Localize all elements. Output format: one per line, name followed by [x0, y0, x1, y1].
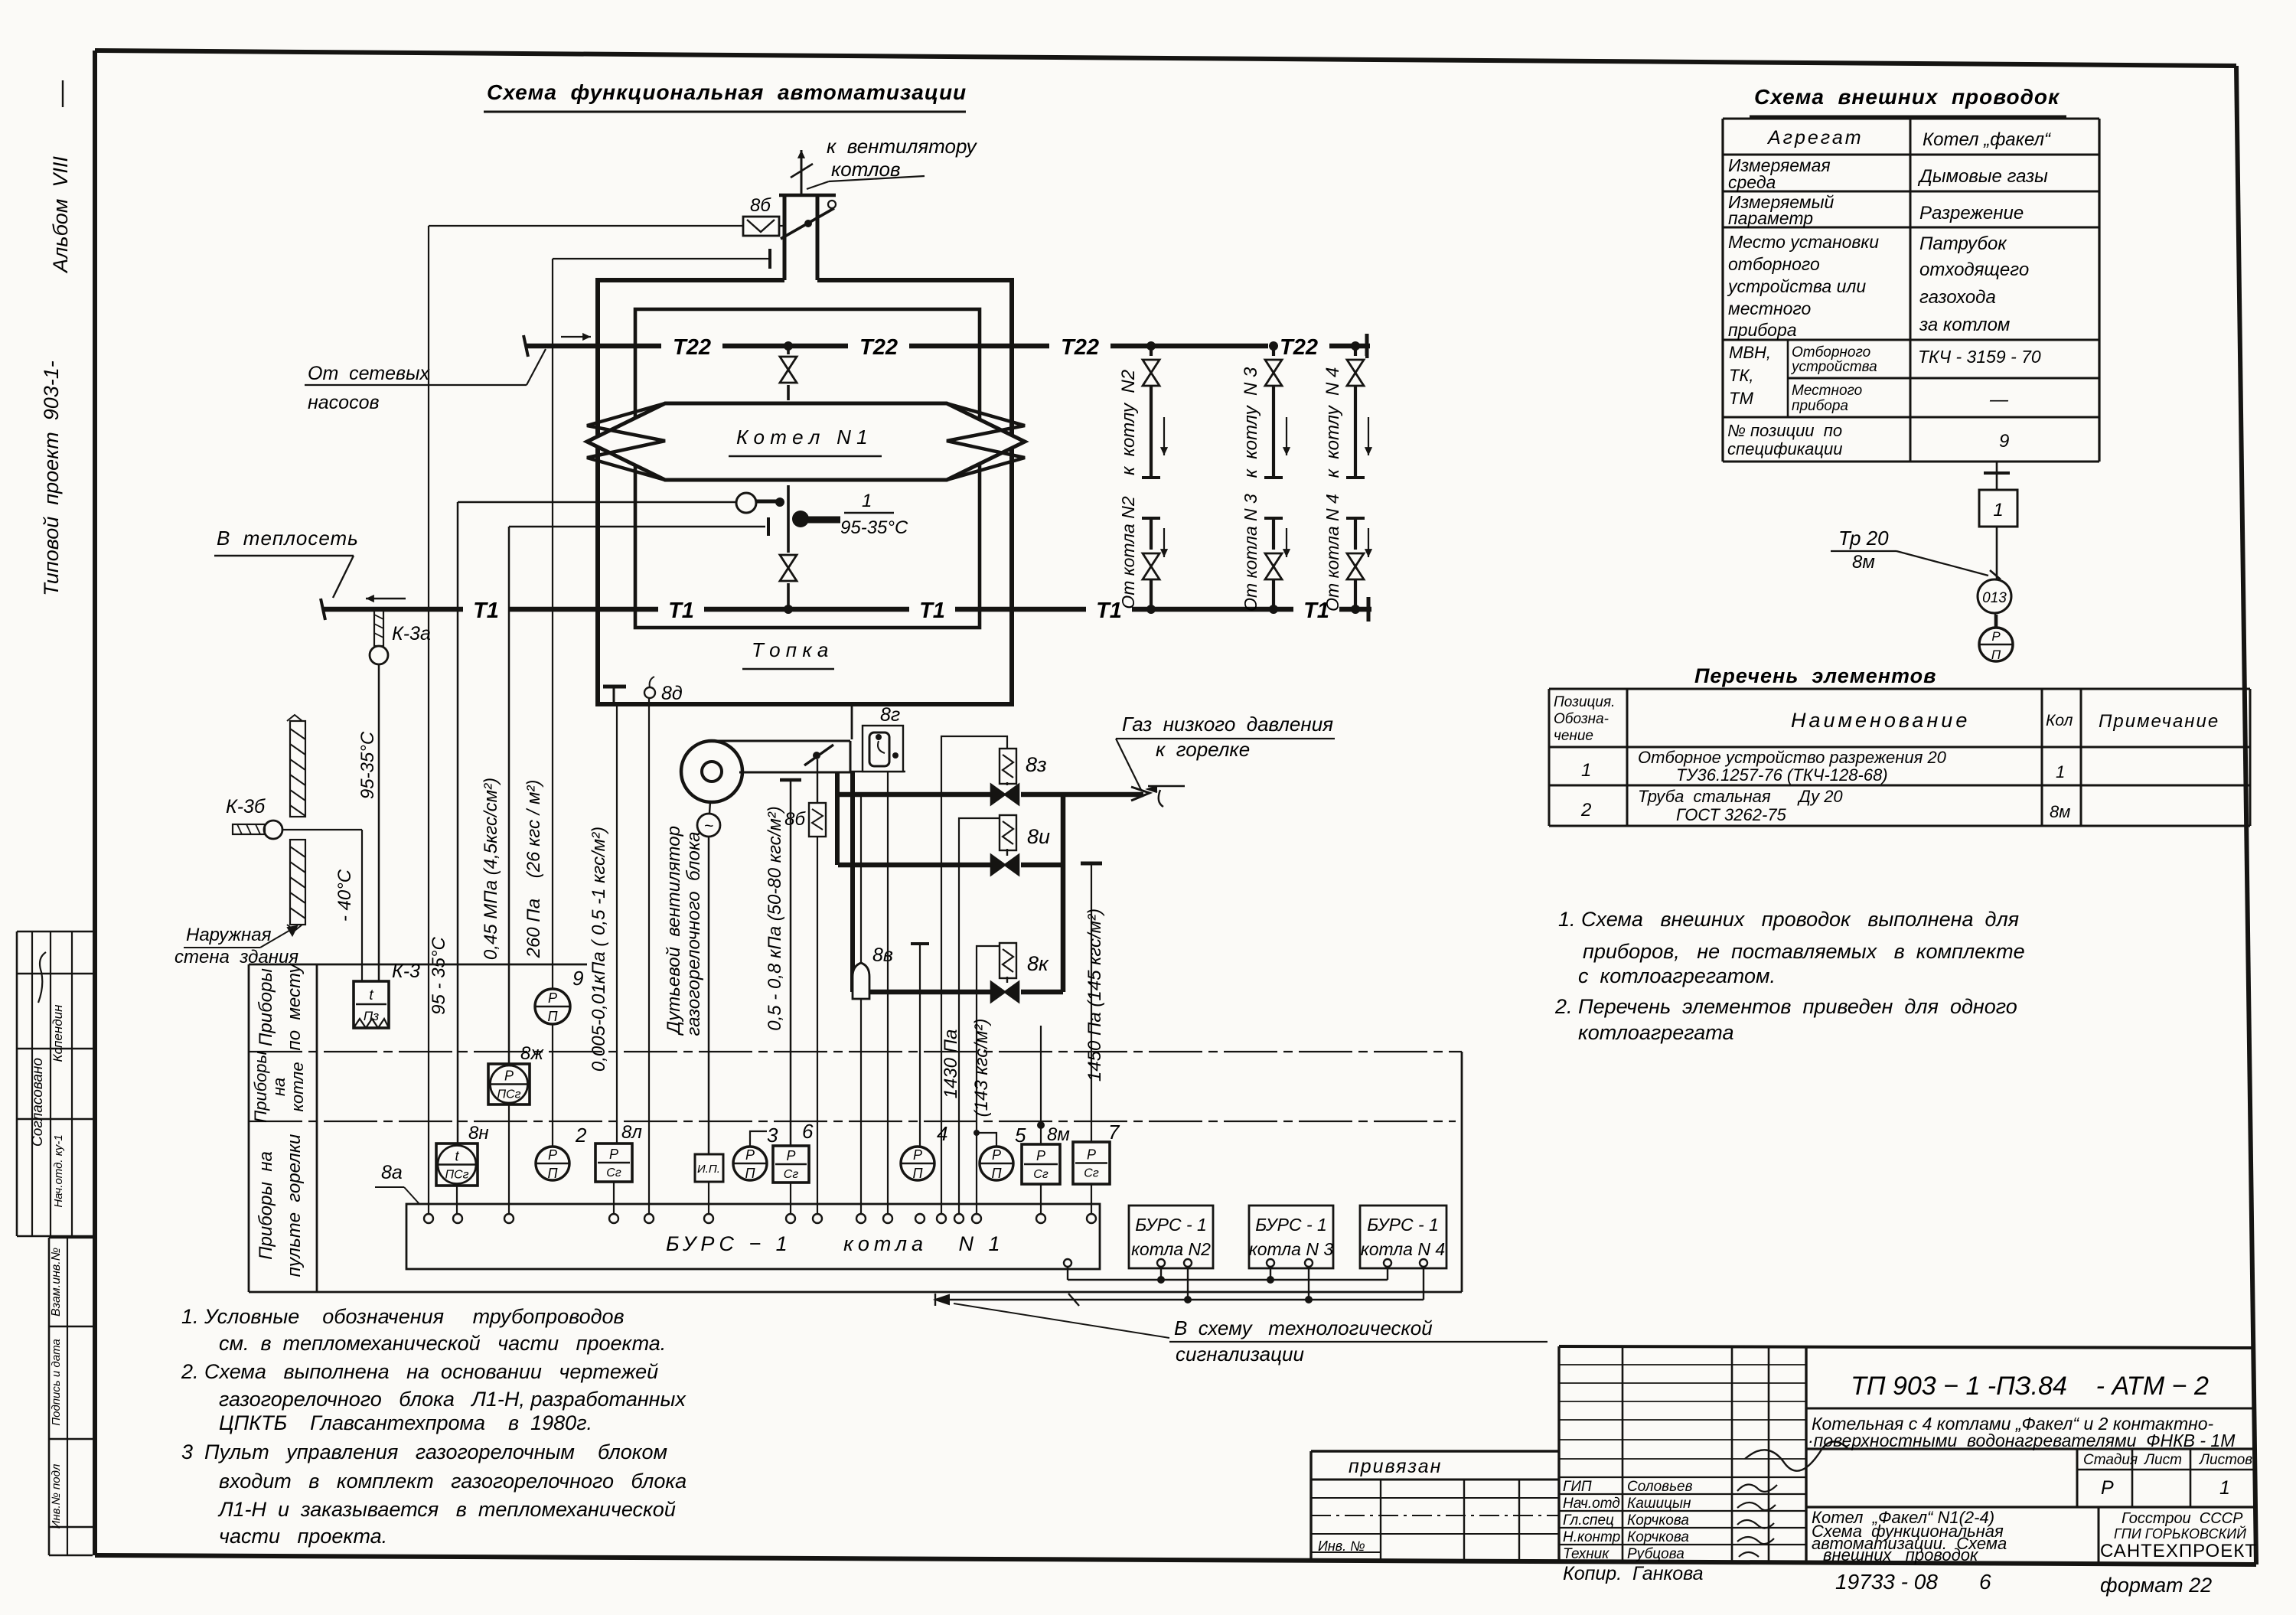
svg-text:котла N2: котла N2: [1131, 1239, 1211, 1259]
svg-text:Р: Р: [548, 1147, 557, 1163]
border frame: [93, 51, 97, 1555]
svg-text:насосов: насосов: [308, 392, 380, 413]
svg-text:ТМ: ТМ: [1729, 389, 1754, 408]
chimney damper: [781, 208, 834, 239]
svg-text:к котлу N 4: к котлу N 4: [1322, 367, 1343, 478]
svg-text:Лист: Лист: [2143, 1452, 2182, 1468]
boiler right zigzag: [947, 403, 1025, 480]
svg-text:части проекта.: части проекта.: [219, 1525, 387, 1548]
svg-text:приборов, не поставляемых: приборов, не поставляемых в комплекте: [1583, 940, 2025, 963]
K-3b thermometer: [233, 824, 265, 834]
svg-text:9: 9: [1999, 431, 2009, 452]
svg-text:Соловьев: Соловьев: [1627, 1479, 1693, 1495]
svg-text:Листов: Листов: [2198, 1452, 2252, 1468]
8v sensor (bullet): [860, 794, 862, 966]
svg-text:БУРС - 1: БУРС - 1: [1367, 1215, 1439, 1235]
svg-text:П: П: [912, 1166, 923, 1181]
svg-text:газохода: газохода: [1919, 287, 1996, 308]
svg-text:Инв. №: Инв. №: [1318, 1538, 1365, 1554]
svg-text:2. Схема выполнена на осн: 2. Схема выполнена на основании чертежей: [181, 1360, 658, 1383]
svg-text:Газ низкого давления: Газ низкого давления: [1122, 713, 1333, 736]
svg-text:8б: 8б: [750, 195, 771, 216]
svg-text:с котлоагрегатом.: с котлоагрегатом.: [1578, 964, 1776, 987]
T end tap line to instrument 4: [911, 942, 929, 945]
svg-text:Перечень элементов: Перечень элементов: [1694, 664, 1936, 687]
wires from gas valve actuators: [941, 736, 1007, 1214]
svg-text:входит в комплект газого: входит в комплект газогорелочного блока: [219, 1470, 687, 1493]
svg-text:Отборное устройство разрежения: Отборное устройство разрежения 20: [1638, 748, 1947, 767]
svg-text:Агрегат: Агрегат: [1766, 127, 1864, 148]
svg-text:П: П: [991, 1166, 1002, 1181]
svg-text:8л: 8л: [621, 1122, 642, 1143]
svg-text:1: 1: [1993, 500, 2003, 520]
svg-text:Р: Р: [548, 990, 557, 1006]
gas arrow end: [1131, 787, 1150, 801]
svg-text:МВН,: МВН,: [1729, 343, 1771, 362]
svg-text:П: П: [547, 1166, 558, 1181]
instrument 9 (P/P local): [552, 972, 553, 989]
svg-text:П: П: [1991, 648, 2001, 662]
svg-text:отборного: отборного: [1728, 254, 1820, 274]
svg-text:Т о п к а: Т о п к а: [752, 638, 828, 661]
left margin upper table (approvals): [17, 931, 93, 933]
svg-text:Инв.№ подл: Инв.№ подл: [50, 1463, 63, 1529]
svg-text:Копир. Ганкова: Копир. Ганкова: [1563, 1563, 1704, 1584]
svg-text:От котла N2: От котла N2: [1118, 496, 1138, 609]
svg-text:—: —: [1989, 390, 2009, 410]
left margin lower strip (inv/sign cells): [49, 1237, 93, 1239]
svg-text:Типовой проект 903-1-: Типовой проект 903-1-: [40, 361, 63, 596]
valve 8b (draft regulator): [429, 225, 743, 227]
svg-text:1: 1: [1581, 760, 1591, 781]
svg-text:1430 Па: 1430 Па: [941, 1029, 961, 1099]
svg-text:ГИП: ГИП: [1563, 1479, 1592, 1495]
svg-text:От котла N 4: От котла N 4: [1322, 494, 1342, 612]
flow arrow on T22: [561, 336, 591, 338]
svg-text:котла N 3: котла N 3: [1249, 1239, 1333, 1259]
thermowell sensor 1 / 95-35C: [792, 511, 809, 527]
svg-text:2: 2: [575, 1124, 587, 1147]
svg-text:8б: 8б: [784, 809, 806, 830]
svg-text:Местного: Местного: [1792, 383, 1862, 399]
svg-text:К-3б: К-3б: [226, 796, 266, 817]
svg-text:8г: 8г: [880, 704, 900, 726]
svg-text:Сг: Сг: [1084, 1167, 1099, 1180]
svg-text:От сетевых: От сетевых: [308, 363, 430, 384]
svg-text:Нач.отд. ку-1: Нач.отд. ку-1: [52, 1134, 65, 1207]
svg-text:8м: 8м: [1047, 1124, 1070, 1145]
element list table: [1549, 688, 2250, 690]
svg-text:Р: Р: [786, 1148, 795, 1163]
svg-text:8и: 8и: [1027, 825, 1050, 848]
svg-text:Р: Р: [913, 1147, 922, 1163]
svg-text:местного: местного: [1728, 299, 1811, 318]
svg-text:Кашицын: Кашицын: [1627, 1496, 1691, 1512]
svg-text:Кспендин: Кспендин: [51, 1004, 65, 1062]
svg-text:Труба стальная Ду 20: Труба стальная Ду 20: [1638, 787, 1843, 806]
project name cell: [2098, 1507, 2100, 1562]
svg-text:Н.контр: Н.контр: [1563, 1529, 1620, 1545]
svg-text:Т1: Т1: [919, 599, 945, 623]
svg-text:0,45 МПа (4,5кгс/см²): 0,45 МПа (4,5кгс/см²): [481, 778, 501, 960]
svg-text:·поверхностными водонагревате: ·поверхностными водонагревателями ФНКВ -…: [1808, 1431, 2236, 1450]
svg-text:В схему технологической: В схему технологической: [1174, 1316, 1433, 1339]
title block right part: [1806, 1408, 2254, 1410]
svg-text:8в: 8в: [872, 945, 893, 966]
svg-text:Наружная: Наружная: [186, 925, 272, 945]
svg-text:см. в тепломеханической ча: см. в тепломеханической части проекта.: [219, 1332, 666, 1355]
svg-text:Корчкова: Корчкова: [1627, 1512, 1689, 1529]
svg-text:К-3: К-3: [392, 961, 420, 982]
svg-text:260 Па (26 кгс / м²): 260 Па (26 кгс / м²): [523, 780, 544, 959]
svg-text:газогорелочного блока: газогорелочного блока: [683, 832, 704, 1036]
svg-text:прибора: прибора: [1792, 398, 1848, 414]
svg-text:Сг: Сг: [606, 1166, 621, 1179]
svg-text:К-3а: К-3а: [392, 623, 431, 644]
svg-text:ГПИ ГОРЬКОВСКИЙ: ГПИ ГОРЬКОВСКИЙ: [2114, 1525, 2246, 1542]
svg-text:(143 кгс/м²): (143 кгс/м²): [971, 1019, 992, 1117]
svg-text:Т1: Т1: [668, 599, 694, 623]
svg-text:Подпись и дата: Подпись и дата: [50, 1339, 63, 1425]
svg-text:к вентилятору: к вентилятору: [827, 135, 978, 158]
svg-text:Госстрои СССР: Госстрои СССР: [2122, 1510, 2243, 1527]
svg-text:Место установки: Место установки: [1728, 232, 1879, 252]
svg-text:Отборного: Отборного: [1792, 344, 1870, 361]
BURS boiler N4 box: [1360, 1206, 1446, 1268]
svg-text:Приборы: Приборы: [251, 1051, 270, 1122]
gas main pipe: [836, 792, 1143, 798]
gas risers: [1061, 794, 1066, 992]
svg-text:~: ~: [704, 817, 713, 835]
instrument circle 013: [1978, 579, 2013, 615]
svg-text:9: 9: [572, 967, 583, 990]
svg-text:среда: среда: [1728, 172, 1776, 192]
svg-text:Т22: Т22: [673, 335, 711, 360]
svg-text:1: 1: [862, 491, 872, 511]
svg-text:19733 - 08: 19733 - 08: [1835, 1570, 1938, 1594]
svg-text:8м: 8м: [1852, 552, 1875, 573]
svg-text:В теплосеть: В теплосеть: [217, 527, 359, 550]
gas line to 8i: [838, 863, 1063, 868]
svg-text:на: на: [269, 1078, 289, 1096]
K-3a thermometer: [374, 611, 383, 646]
svg-text:котла N 4: котла N 4: [1361, 1239, 1445, 1259]
svg-text:2. Перечень элементов привед: 2. Перечень элементов приведен для одног…: [1554, 995, 2017, 1018]
svg-text:Патрубок: Патрубок: [1919, 233, 2007, 254]
svg-text:3: 3: [767, 1124, 778, 1147]
svg-text:по месту: по месту: [284, 963, 305, 1051]
svg-text:8к: 8к: [1027, 952, 1049, 975]
stage/sheet mini table: [2076, 1449, 2079, 1507]
svg-text:газогорелочного блока Л1-Н: газогорелочного блока Л1-Н, разработанны…: [219, 1388, 687, 1411]
T end on 1450Pa line: [1081, 862, 1102, 866]
svg-text:Разрежение: Разрежение: [1919, 203, 2024, 223]
svg-text:прибора: прибора: [1728, 320, 1797, 340]
svg-text:к котлу N 3: к котлу N 3: [1241, 367, 1261, 478]
svg-text:чение: чение: [1554, 728, 1593, 744]
flow arrow on T1: [366, 598, 406, 599]
svg-text:7: 7: [1108, 1121, 1120, 1144]
svg-text:Сг: Сг: [784, 1168, 799, 1181]
svg-text:И.П.: И.П.: [697, 1163, 720, 1176]
thermometer on drum: [458, 501, 736, 504]
8d sensor flag: [644, 687, 655, 698]
svg-text:к котлу N2: к котлу N2: [1118, 370, 1139, 475]
svg-text:ГОСТ 3262-75: ГОСТ 3262-75: [1676, 805, 1787, 824]
svg-text:САНТЕХПРОЕКТ: САНТЕХПРОЕКТ: [2100, 1541, 2257, 1561]
8b2 solenoid on vertical: [817, 759, 818, 803]
svg-text:Сг: Сг: [1033, 1168, 1049, 1181]
valve 8z: [990, 784, 1021, 805]
svg-text:Альбом VIII: Альбом VIII: [49, 156, 72, 274]
svg-text:П: П: [547, 1009, 558, 1024]
boiler room outer box (furnace enclosure): [598, 280, 1012, 704]
title block fine grid: [1557, 1346, 1560, 1562]
svg-text:8м: 8м: [2050, 802, 2070, 821]
BURS terminals: [424, 1214, 433, 1223]
svg-text:Согласовано: Согласовано: [30, 1058, 46, 1147]
svg-text:3 Пульт управления газого: 3 Пульт управления газогорелочным блоком: [181, 1440, 667, 1463]
svg-text:1: 1: [2056, 762, 2065, 781]
svg-text:Наименование: Наименование: [1791, 709, 1970, 732]
long impulse wires down to BURS: [428, 226, 429, 1214]
svg-text:Т22: Т22: [1061, 335, 1099, 360]
svg-text:устройства: устройства: [1790, 359, 1877, 375]
valve from T22 to drum: [784, 341, 793, 351]
external wiring table: [1723, 118, 2099, 120]
svg-text:Т1: Т1: [473, 599, 499, 623]
svg-text:Р: Р: [992, 1147, 1001, 1163]
impulse line with T end (furnace): [509, 526, 765, 528]
instrument circle P/P: [1994, 613, 1997, 628]
svg-text:параметр: параметр: [1728, 208, 1813, 228]
K-3 local instrument: [354, 981, 389, 1028]
svg-text:Приборы на: Приборы на: [256, 1151, 276, 1260]
svg-text:Позиция.: Позиция.: [1554, 694, 1615, 710]
svg-text:Схема функциональная автомат: Схема функциональная автоматизации: [487, 80, 967, 104]
draft tap line with T end: [553, 258, 767, 259]
svg-text:сигнализации: сигнализации: [1176, 1343, 1304, 1365]
alarm scheme label: [954, 1303, 1169, 1338]
fan (blower): [681, 741, 742, 802]
svg-text:Взам.инв.№: Взам.инв.№: [50, 1248, 63, 1316]
svg-text:1: 1: [2219, 1477, 2230, 1499]
signal buses to alarm scheme: [1064, 1259, 1071, 1267]
svg-text:привязан: привязан: [1349, 1456, 1442, 1477]
svg-text:Р: Р: [504, 1069, 514, 1084]
vent arrow to fan of boilers: [801, 150, 803, 194]
svg-text:2: 2: [1580, 800, 1591, 821]
branch valves to boilers N2 N3 N4: [1146, 341, 1156, 351]
svg-text:формат 22: формат 22: [2100, 1574, 2212, 1597]
svg-text:8з: 8з: [1026, 753, 1047, 776]
svg-text:Т22: Т22: [1280, 335, 1318, 360]
svg-text:Р: Р: [745, 1147, 755, 1163]
BURS boiler N3 box: [1249, 1206, 1333, 1268]
svg-text:№ позиции по: № позиции по: [1727, 421, 1842, 440]
boiler left zigzag: [587, 403, 665, 480]
fan motor: [697, 814, 720, 837]
svg-text:От котла N 3: От котла N 3: [1241, 494, 1261, 612]
external wiring: sensor chain: [1996, 462, 1998, 628]
svg-text:БУРС − 1 котла N 1: БУРС − 1 котла N 1: [666, 1232, 1005, 1255]
svg-text:1. Условные обозначения: 1. Условные обозначения трубопроводов: [181, 1305, 625, 1328]
svg-text:внешних проводок: внешних проводок: [1823, 1545, 1979, 1564]
outer building wall: [290, 721, 305, 817]
svg-text:Р: Р: [1036, 1148, 1045, 1163]
svg-text:котле: котле: [288, 1062, 307, 1111]
pipe T1 return line: [324, 607, 1371, 612]
svg-text:0,005-0,01кПа ( 0,5 -1 кгс/м²): 0,005-0,01кПа ( 0,5 -1 кгс/м²): [589, 827, 609, 1072]
BURS boiler N2 box: [1129, 1206, 1213, 1268]
svg-text:Схема внешних проводок: Схема внешних проводок: [1754, 85, 2060, 109]
svg-text:Нач.отд: Нач.отд: [1563, 1496, 1620, 1512]
svg-text:за котлом: за котлом: [1919, 315, 2010, 335]
svg-text:Дутьевой вентилятор: Дутьевой вентилятор: [664, 826, 684, 1036]
svg-text:Приборы: Приборы: [256, 968, 276, 1046]
gas line to 8k: [853, 990, 1063, 995]
svg-text:95-35°С: 95-35°С: [357, 731, 378, 799]
svg-text:спецификации: спецификации: [1727, 439, 1842, 458]
svg-text:БУРС - 1: БУРС - 1: [1255, 1215, 1327, 1235]
chimney duct: [783, 195, 787, 280]
svg-text:Р: Р: [1991, 629, 2001, 644]
svg-text:котлоагрегата: котлоагрегата: [1578, 1021, 1734, 1044]
svg-text:Р: Р: [1087, 1147, 1096, 1163]
svg-text:1450 Па (145 кгс/м²): 1450 Па (145 кгс/м²): [1084, 909, 1105, 1082]
svg-text:6: 6: [1979, 1570, 1991, 1594]
svg-text:- 40°С: - 40°С: [334, 869, 355, 922]
signatures scribbles: [1737, 1484, 1777, 1491]
svg-text:устройства или: устройства или: [1727, 276, 1866, 296]
svg-text:8н: 8н: [468, 1123, 489, 1144]
position 1 box: [1979, 490, 2017, 527]
svg-text:ТУ36.1257-76 (ТКЧ-128-68): ТУ36.1257-76 (ТКЧ-128-68): [1676, 765, 1888, 785]
svg-text:Стадия: Стадия: [2083, 1452, 2138, 1468]
svg-text:БУРС - 1: БУРС - 1: [1135, 1215, 1207, 1235]
svg-text:Р: Р: [609, 1147, 618, 1162]
svg-text:К о т е л N 1: К о т е л N 1: [736, 426, 868, 449]
svg-text:ПСг: ПСг: [497, 1088, 520, 1101]
privyazan table: [1311, 1450, 1559, 1452]
svg-text:013: 013: [1982, 590, 2007, 606]
svg-text:Л1-Н и заказывается в теп: Л1-Н и заказывается в тепломеханической: [217, 1498, 676, 1521]
svg-text:8а: 8а: [381, 1162, 403, 1183]
svg-text:Р: Р: [2101, 1477, 2114, 1499]
svg-text:Котел „факел“: Котел „факел“: [1923, 129, 2052, 150]
T tap inside furnace: [603, 685, 626, 689]
svg-text:ТК,: ТК,: [1729, 366, 1754, 385]
panel label column: [248, 964, 250, 1292]
svg-text:8ж: 8ж: [520, 1043, 544, 1064]
svg-text:Техник: Техник: [1563, 1546, 1609, 1562]
svg-text:0,5 - 0,8 кПа (50-80 кгс/м²): 0,5 - 0,8 кПа (50-80 кгс/м²): [765, 806, 785, 1031]
svg-text:пульте горелки: пульте горелки: [284, 1134, 305, 1277]
svg-text:4: 4: [937, 1122, 947, 1145]
svg-text:95 - 35°С: 95 - 35°С: [429, 937, 449, 1015]
svg-text:95-35°С: 95-35°С: [840, 517, 908, 538]
svg-text:ТКЧ - 3159 - 70: ТКЧ - 3159 - 70: [1918, 347, 2041, 367]
boiler drum shape: [587, 403, 1025, 480]
branch valves from boilers N2 N3 N4: [1146, 605, 1156, 614]
svg-text:ПСг: ПСг: [445, 1169, 468, 1182]
labels T1: [463, 597, 509, 622]
8g device: [863, 726, 903, 772]
svg-text:Т22: Т22: [859, 335, 898, 360]
boiler inner box: [635, 309, 980, 628]
svg-text:Дымовые газы: Дымовые газы: [1917, 166, 2048, 187]
valve from drum to T1: [787, 485, 790, 609]
svg-text:к горелке: к горелке: [1156, 738, 1250, 761]
svg-text:8д: 8д: [661, 683, 683, 704]
svg-text:1. Схема внешних проводок: 1. Схема внешних проводок выполнена для: [1558, 908, 2019, 931]
svg-text:отходящего: отходящего: [1919, 259, 2029, 280]
svg-text:П: П: [745, 1166, 755, 1181]
svg-text:6: 6: [802, 1120, 814, 1143]
svg-text:ТП 903 − 1 -ПЗ.84 - АТМ − 2: ТП 903 − 1 -ПЗ.84 - АТМ − 2: [1851, 1372, 2209, 1401]
svg-text:Кол: Кол: [2046, 712, 2073, 729]
svg-text:Примечание: Примечание: [2099, 711, 2219, 732]
svg-text:t: t: [369, 987, 373, 1003]
svg-text:ЦПКТБ Главсантехпрома в: ЦПКТБ Главсантехпрома в 1980г.: [219, 1411, 592, 1434]
instrument 8zh on boiler: [488, 1064, 530, 1104]
duct damper: [804, 745, 833, 765]
svg-text:Корчкова: Корчкова: [1627, 1529, 1689, 1545]
row3 instruments: [457, 1143, 458, 1144]
svg-text:Гл.спец: Гл.спец: [1563, 1512, 1614, 1529]
pipe T22 supply line: [527, 344, 1370, 349]
labels T22: [661, 334, 722, 358]
svg-text:Обозна-: Обозна-: [1554, 711, 1609, 727]
BURS-1 boiler N1 box: [406, 1204, 1100, 1269]
svg-text:Рубцова: Рубцова: [1627, 1546, 1684, 1562]
svg-text:Тр 20: Тр 20: [1838, 527, 1889, 550]
